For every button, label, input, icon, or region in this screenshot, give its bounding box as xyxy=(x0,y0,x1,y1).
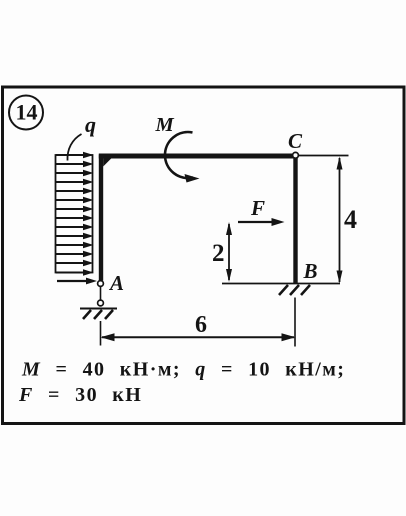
ground line at B xyxy=(222,283,340,285)
dimension 6 (horizontal, A to B) with extension lines xyxy=(101,298,296,347)
svg-text:B: B xyxy=(303,259,318,283)
pin circle A xyxy=(98,281,104,287)
dimension 2 (vertical, F line to ground) xyxy=(212,222,232,282)
support A: link, lower circle, ground and hatching xyxy=(80,287,117,319)
svg-text:F: F xyxy=(250,196,265,220)
svg-text:M = 40 кН·м; q = 10 кН/м;: M = 40 кН·м; q = 10 кН/м; xyxy=(21,359,345,381)
top beam (corner to C) xyxy=(99,156,296,167)
moment M arc with arrowhead xyxy=(165,132,200,182)
dimension 4 (vertical, beam line to ground) xyxy=(337,157,358,284)
svg-text:6: 6 xyxy=(195,312,207,338)
right column (C to B) xyxy=(293,158,297,284)
svg-text:A: A xyxy=(108,271,124,295)
support B hatching xyxy=(279,285,310,295)
force F arrow xyxy=(238,218,285,226)
svg-text:F = 30 кН: F = 30 кН xyxy=(18,384,142,406)
svg-text:q: q xyxy=(85,112,96,137)
problem number 14 xyxy=(9,96,43,130)
label q with leader line xyxy=(67,112,96,161)
svg-text:C: C xyxy=(288,129,303,153)
thin beam extension line from C to dimension 4 xyxy=(296,155,349,157)
svg-text:M: M xyxy=(155,114,175,136)
svg-text:2: 2 xyxy=(212,240,225,267)
svg-text:4: 4 xyxy=(344,205,357,234)
svg-text:14: 14 xyxy=(16,99,38,124)
left column (A to top corner) xyxy=(99,155,103,281)
hinge circle C xyxy=(293,152,299,158)
distributed load q (strip of arrows) xyxy=(56,152,98,285)
